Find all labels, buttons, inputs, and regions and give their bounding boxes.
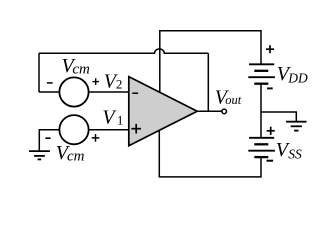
label + (VSS positive terminal) <box>267 127 275 135</box>
ground (left, below bottom Vcm source) <box>29 151 50 159</box>
svg-text:DD: DD <box>287 71 308 86</box>
label - (op-amp inverting input) <box>132 92 138 94</box>
op-amp U1 <box>129 77 197 146</box>
wire positive supply (top rail from op-amp to VDD) <box>160 31 261 93</box>
wire op-amp output <box>197 110 222 112</box>
source Vcm (bottom, in series with V1) <box>59 115 88 144</box>
svg-text:2: 2 <box>116 76 123 91</box>
node Vout (open terminal) <box>222 109 227 114</box>
svg-text:cm: cm <box>72 62 90 78</box>
wire middle node to right ground <box>261 112 296 121</box>
wire negative supply (bottom rail from op-amp to VSS) <box>159 131 261 177</box>
svg-text:1: 1 <box>117 112 124 127</box>
label + (op-amp noninverting input) <box>131 124 141 134</box>
svg-text:SS: SS <box>288 146 302 161</box>
label + (top source right terminal) <box>92 78 99 85</box>
source Vcm (top, in series with V2) <box>59 77 88 106</box>
wire top source to op-amp inverting input <box>39 91 129 93</box>
label - (top source left terminal) <box>47 82 53 84</box>
label + (bottom source right terminal) <box>92 134 100 142</box>
wire feedback top (Vout to left source, with hop over supply wire) <box>39 49 208 53</box>
label - (VDD negative terminal) <box>267 87 273 89</box>
label - (VSS negative terminal) <box>267 160 274 162</box>
ground (right, between VDD and VSS) <box>286 122 306 131</box>
battery VDD <box>248 64 275 83</box>
wire middle node between batteries <box>260 84 262 138</box>
wire left vertical of top source <box>38 53 40 92</box>
wire bottom source to op-amp noninverting input <box>39 130 129 151</box>
battery VSS <box>248 138 275 157</box>
label + (VDD positive terminal) <box>266 45 274 53</box>
svg-text:out: out <box>225 93 242 107</box>
wire feedback vertical (output up to top wire) <box>207 53 209 111</box>
svg-text:cm: cm <box>67 148 85 164</box>
label - (bottom source left terminal) <box>45 137 50 139</box>
